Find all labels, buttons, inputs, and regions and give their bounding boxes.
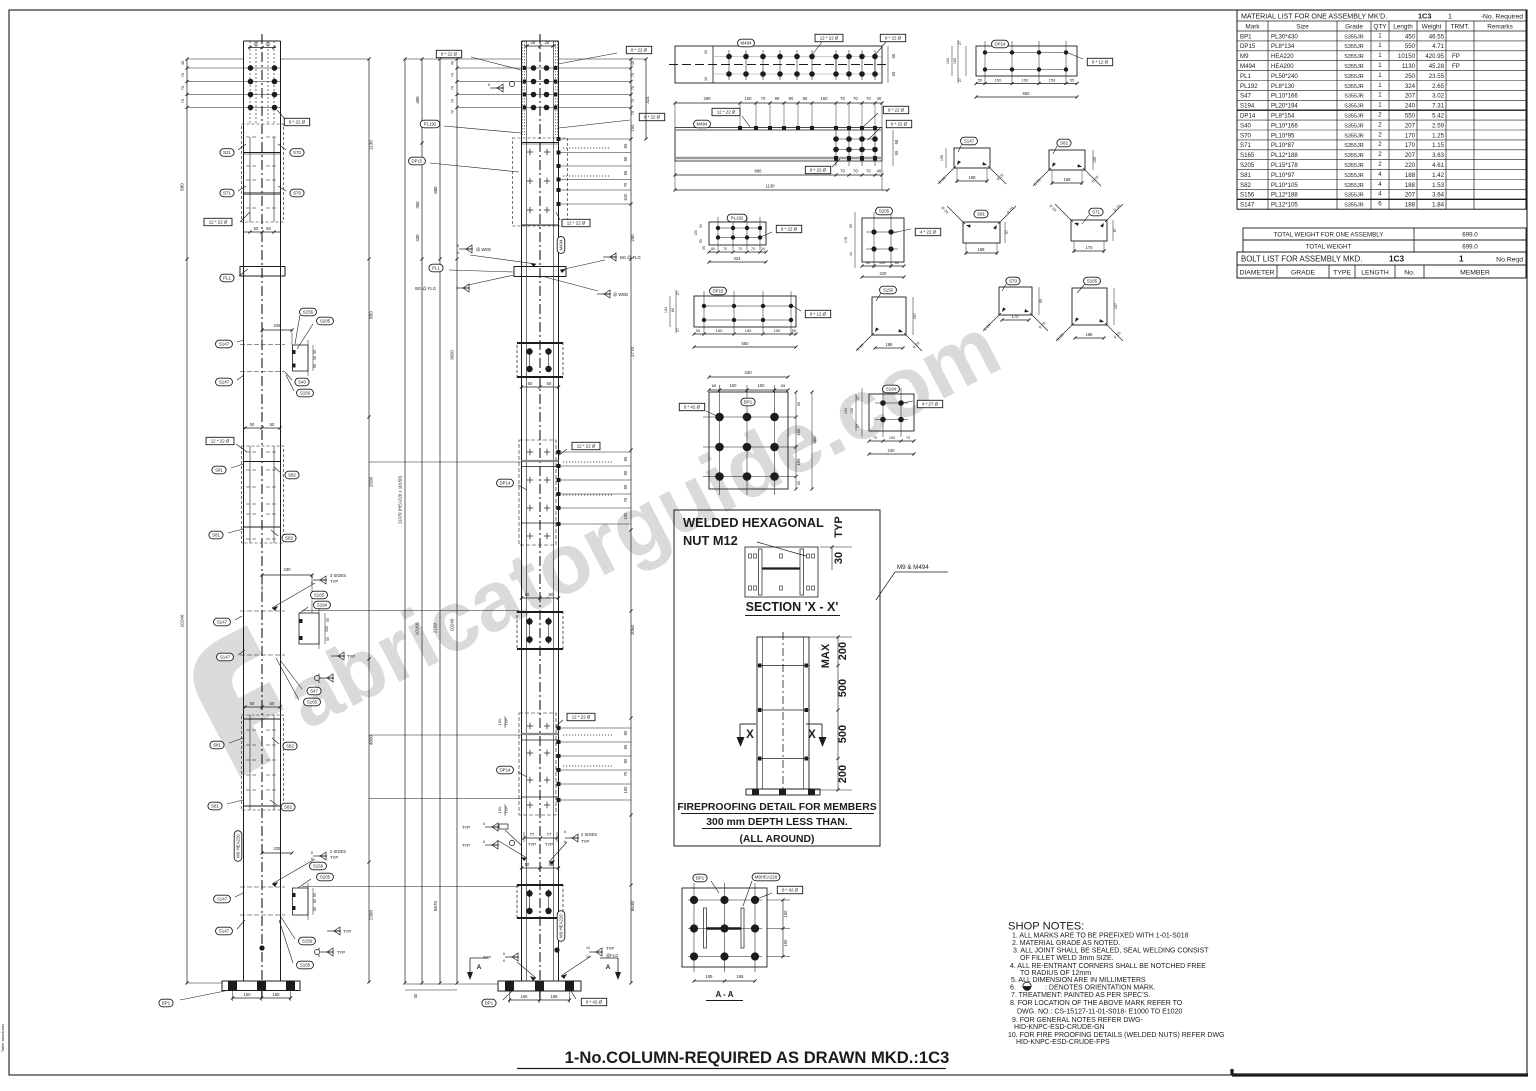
svg-text:6: 6 — [311, 851, 313, 855]
svg-text:1.25: 1.25 — [1432, 132, 1444, 139]
gusset S194 plate mid — [299, 613, 319, 644]
label S71 det — [1089, 208, 1103, 216]
svg-text:47: 47 — [856, 424, 860, 428]
svg-text:27: 27 — [958, 41, 962, 45]
svg-text:6: 6 — [488, 83, 490, 87]
svg-text:880: 880 — [755, 169, 763, 174]
svg-text:@ WEB: @ WEB — [476, 247, 491, 252]
svg-text:90: 90 — [623, 470, 628, 475]
svg-text:165: 165 — [521, 994, 529, 999]
svg-text:1C3: 1C3 — [1389, 255, 1404, 264]
svg-text:BP1: BP1 — [1240, 33, 1252, 40]
column 2 top dim 28|28 — [524, 45, 556, 47]
svg-text:M494: M494 — [697, 122, 709, 127]
svg-text:10240: 10240 — [180, 614, 185, 627]
svg-text:1.42: 1.42 — [1432, 172, 1444, 179]
svg-text:PL10*87: PL10*87 — [1271, 142, 1295, 149]
label S205 l — [317, 873, 334, 881]
svg-text:S147: S147 — [217, 620, 228, 625]
svg-text:55: 55 — [313, 907, 317, 911]
label S81 det — [974, 210, 988, 218]
svg-text:27: 27 — [958, 78, 962, 82]
svg-text:MEMBER: MEMBER — [1460, 270, 1490, 277]
svg-text:8 * 22 Ø: 8 * 22 Ø — [891, 122, 908, 127]
svg-text:8 * 22 Ø: 8 * 22 Ø — [441, 52, 458, 57]
svg-text:-No. Required: -No. Required — [1481, 13, 1524, 20]
svg-text:PL50*240: PL50*240 — [1271, 73, 1298, 80]
svg-text:S205: S205 — [879, 209, 890, 214]
svg-text:68: 68 — [894, 139, 899, 144]
svg-text:70: 70 — [451, 73, 455, 77]
label 12*22 col2 top — [562, 219, 590, 226]
svg-text:S71: S71 — [1092, 210, 1100, 215]
svg-text:150: 150 — [745, 328, 752, 333]
label S70 upper — [290, 149, 304, 157]
svg-text:90: 90 — [849, 224, 853, 228]
svg-text:2 SIDES: 2 SIDES — [581, 832, 597, 837]
label S165 mid — [311, 591, 328, 599]
weld BG@FLG left — [456, 287, 470, 289]
svg-text:Remarks: Remarks — [1487, 24, 1513, 31]
svg-text:10. FOR FIRE PROOFING DETAILS: 10. FOR FIRE PROOFING DETAILS (WELDED NU… — [1008, 1032, 1225, 1039]
label 8*22 elev a — [883, 106, 908, 113]
svg-text:PL1: PL1 — [432, 266, 440, 271]
column 1 top bolts 12*22 — [244, 67, 281, 69]
svg-text:S82: S82 — [285, 536, 293, 541]
right extension lines 90/90/90/70/100 top — [559, 138, 632, 140]
svg-text:M9: M9 — [1240, 53, 1249, 60]
svg-text:200: 200 — [837, 765, 849, 783]
svg-text:70: 70 — [623, 771, 628, 776]
svg-text:9. FOR GENERAL NOTES REFER DWG: 9. FOR GENERAL NOTES REFER DWG- — [1012, 1017, 1143, 1024]
svg-text:90: 90 — [623, 456, 628, 461]
label S70 det — [1006, 277, 1020, 285]
label 4*22 S205 — [915, 228, 940, 235]
svg-text:420.95: 420.95 — [1425, 53, 1444, 60]
label 12*22 col2 mid — [572, 442, 600, 449]
label 8*42 BP1 — [679, 403, 704, 410]
label S205 det — [876, 207, 893, 215]
svg-text:S147: S147 — [964, 139, 975, 144]
svg-text:S165: S165 — [1087, 279, 1098, 284]
svg-text:30: 30 — [833, 552, 845, 564]
label 4*27 S194 — [917, 400, 942, 407]
svg-text:70: 70 — [631, 99, 635, 103]
svg-text:130: 130 — [694, 230, 698, 236]
svg-text:@ WEB: @ WEB — [613, 292, 628, 297]
col2 dim 50|50 above splice2 — [522, 597, 558, 599]
column 2 centerline — [539, 34, 541, 999]
svg-text:S71: S71 — [1240, 142, 1251, 149]
node S205/S156 lower on column 1 — [262, 852, 292, 854]
weld BG@FLG right — [603, 256, 617, 258]
svg-text:55: 55 — [326, 618, 330, 622]
svg-text:S156: S156 — [883, 288, 894, 293]
svg-text:188: 188 — [1064, 177, 1072, 182]
label S194 det — [883, 385, 900, 393]
svg-text:1130: 1130 — [765, 184, 775, 189]
label M494 voval — [557, 237, 565, 254]
svg-text:Weight: Weight — [1422, 24, 1442, 31]
svg-text:BG @ FLG: BG @ FLG — [415, 286, 436, 291]
svg-text:TYP: TYP — [545, 842, 553, 847]
svg-text:S47: S47 — [310, 689, 318, 694]
svg-text:30: 30 — [413, 993, 418, 998]
label S81 l — [210, 741, 224, 749]
svg-text:90: 90 — [789, 96, 794, 101]
svg-text:65: 65 — [796, 401, 801, 406]
weld cluster above base splice — [485, 826, 499, 828]
label S147 f — [216, 927, 233, 935]
label DP14 upper — [497, 479, 514, 487]
svg-text:TYP: TYP — [347, 654, 355, 659]
svg-text:S165: S165 — [300, 963, 311, 968]
svg-text:90: 90 — [313, 356, 317, 360]
svg-text:154: 154 — [946, 58, 950, 64]
svg-text:8 * 22 Ø: 8 * 22 Ø — [885, 36, 902, 41]
svg-text:TYP: TYP — [581, 839, 589, 844]
svg-text:Size: Size — [1296, 24, 1309, 31]
label BP1 col1 — [159, 999, 173, 1007]
svg-text:1.15: 1.15 — [1432, 142, 1444, 149]
svg-text:DIAMETER: DIAMETER — [1239, 270, 1274, 277]
svg-text:188: 188 — [978, 247, 986, 252]
splice plate PL1 col1 — [240, 267, 285, 277]
svg-text:PL1: PL1 — [223, 276, 231, 281]
detail S205 — [862, 218, 904, 262]
label 8*22 top-right col2 — [626, 46, 651, 53]
svg-text:BP1: BP1 — [485, 1001, 494, 1006]
svg-text:PL15*178: PL15*178 — [1271, 162, 1298, 169]
svg-text:PL10*105: PL10*105 — [1271, 182, 1298, 189]
svg-text:M9HEA220: M9HEA220 — [755, 875, 778, 880]
detail M494 side elevation — [675, 102, 882, 104]
svg-text:A: A — [477, 964, 482, 971]
dim 77|77 — [524, 837, 557, 839]
svg-text:70: 70 — [631, 111, 635, 115]
svg-text:DWG. NO.: CS-15127-11-01-S018-: DWG. NO.: CS-15127-11-01-S018- E1000 TO … — [1017, 1009, 1182, 1016]
svg-text:6: 6 — [457, 251, 459, 255]
label 12*22 col2 low — [567, 713, 595, 720]
svg-text:70: 70 — [761, 96, 766, 101]
svg-text:220: 220 — [1405, 162, 1416, 169]
svg-text:DP14: DP14 — [1240, 113, 1256, 120]
svg-text:90: 90 — [775, 96, 780, 101]
svg-text:PL12*188: PL12*188 — [1271, 152, 1298, 159]
svg-text:30: 30 — [704, 77, 708, 81]
label S82 det — [1057, 139, 1071, 147]
column 1 right dimension line 1130/850/2500/4800/2380 — [368, 59, 370, 983]
svg-text:S21: S21 — [223, 150, 231, 155]
svg-text:3 SIDES: 3 SIDES — [330, 573, 346, 578]
label S40 — [295, 378, 309, 386]
label 12*22 elev — [712, 108, 740, 115]
svg-text:MATERIAL LIST FOR ONE ASSEMBLY: MATERIAL LIST FOR ONE ASSEMBLY MK’D. — [1241, 12, 1387, 20]
svg-text:S205: S205 — [320, 319, 331, 324]
M494 plan right dims 65 65 — [887, 46, 889, 83]
svg-text:S156: S156 — [300, 391, 311, 396]
svg-text:S205: S205 — [1240, 162, 1255, 169]
svg-text:70: 70 — [866, 169, 871, 174]
svg-text:8 * 42 Ø: 8 * 42 Ø — [782, 888, 799, 893]
svg-text:S81: S81 — [1240, 172, 1251, 179]
svg-text:220: 220 — [880, 271, 888, 276]
svg-text:S71: S71 — [223, 191, 231, 196]
svg-text:200: 200 — [837, 642, 849, 660]
bolt list header — [1237, 252, 1526, 265]
svg-text:S82: S82 — [1060, 141, 1068, 146]
svg-text:6: 6 — [564, 830, 566, 834]
svg-text:8 * 22 Ø: 8 * 22 Ø — [289, 120, 306, 125]
svg-text:S70: S70 — [293, 191, 301, 196]
svg-text:TYP: TYP — [337, 950, 345, 955]
weld TYP mid — [331, 655, 345, 657]
svg-text:90: 90 — [623, 484, 628, 489]
svg-text:S355JR: S355JR — [1344, 34, 1364, 40]
svg-text:170: 170 — [1405, 132, 1416, 139]
svg-text:60: 60 — [895, 261, 899, 265]
svg-text:188: 188 — [886, 342, 894, 347]
svg-text:OF FILLET WELD 3mm SIZE.: OF FILLET WELD 3mm SIZE. — [1020, 955, 1114, 962]
svg-text:PL192: PL192 — [731, 216, 744, 221]
column M9 elevation (flange view) main body — [521, 41, 523, 981]
detail S81 — [963, 222, 1000, 243]
total weight table — [1243, 228, 1526, 240]
label M494 elev — [694, 120, 711, 128]
svg-text:30: 30 — [704, 50, 708, 54]
svg-text:S194: S194 — [1240, 103, 1255, 110]
svg-text:350: 350 — [415, 201, 420, 209]
svg-text:207: 207 — [1405, 122, 1416, 129]
svg-text:4. ALL RE-ENTRANT CORNERS SHAL: 4. ALL RE-ENTRANT CORNERS SHALL BE NOTCH… — [1010, 963, 1206, 970]
svg-text:2060: 2060 — [630, 624, 635, 635]
svg-text:8 * 22 Ø: 8 * 22 Ø — [644, 115, 661, 120]
label S21 — [220, 149, 234, 157]
column 2 left dim lines — [404, 59, 406, 983]
svg-text:S165: S165 — [314, 593, 325, 598]
svg-text:S81: S81 — [977, 212, 985, 217]
fireproofing detail enclosure box — [674, 510, 880, 846]
svg-text:S147: S147 — [217, 897, 228, 902]
svg-text:7.31: 7.31 — [1432, 103, 1444, 110]
svg-text:87: 87 — [1113, 228, 1117, 232]
svg-text:6: 6 — [311, 575, 313, 579]
svg-text:TYP: TYP — [330, 579, 338, 584]
svg-text:90: 90 — [803, 96, 808, 101]
svg-text:12 * 22 Ø: 12 * 22 Ø — [717, 110, 736, 115]
svg-text:HEA220: HEA220 — [1271, 53, 1294, 60]
label PL192 det — [727, 214, 747, 222]
svg-text:150: 150 — [716, 328, 723, 333]
svg-text:1C3: 1C3 — [1418, 11, 1431, 20]
svg-text:40: 40 — [631, 61, 635, 65]
svg-text:40: 40 — [451, 61, 455, 65]
svg-text:150: 150 — [783, 939, 788, 947]
svg-text:35: 35 — [702, 246, 706, 250]
svg-text:1: 1 — [1459, 255, 1464, 264]
svg-text:S355JR: S355JR — [1344, 84, 1364, 90]
detail S71 — [1071, 220, 1107, 241]
svg-text:30: 30 — [699, 224, 703, 228]
svg-text:170: 170 — [1405, 142, 1416, 149]
svg-text:2500: 2500 — [369, 476, 374, 487]
svg-text:MAX: MAX — [820, 643, 832, 668]
label DP15 det — [710, 287, 727, 295]
column 1 mid stiffener group S81/S82 upper — [244, 427, 281, 429]
svg-text:240: 240 — [1405, 103, 1416, 110]
svg-text:8 * 22 Ø: 8 * 22 Ø — [631, 48, 648, 53]
detail BP1 base plate plan — [709, 392, 788, 489]
svg-text:480: 480 — [415, 96, 420, 104]
svg-text:2.59: 2.59 — [1432, 122, 1444, 129]
label 8*42 col2 — [581, 998, 606, 1005]
svg-text:TO RADIUS OF 12mm: TO RADIUS OF 12mm — [1020, 970, 1091, 977]
svg-text:S355JR: S355JR — [1344, 74, 1364, 80]
svg-text:70: 70 — [866, 96, 871, 101]
svg-text:S355JR: S355JR — [1344, 203, 1364, 209]
label S156 l — [310, 862, 327, 870]
label BP1 det — [741, 398, 755, 406]
svg-text:M9 HEA220: M9 HEA220 — [236, 834, 241, 858]
svg-text:DP14: DP14 — [995, 42, 1007, 47]
label M9HEA220 A-A — [752, 873, 780, 881]
svg-text:150: 150 — [1049, 78, 1056, 83]
svg-text:50: 50 — [270, 701, 275, 706]
svg-text:BOLT LIST FOR ASSEMBLY MKD.: BOLT LIST FOR ASSEMBLY MKD. — [1241, 255, 1362, 264]
svg-text:PL10*97: PL10*97 — [1271, 172, 1295, 179]
svg-text:M9 & M494: M9 & M494 — [897, 564, 929, 571]
weld @WEB col2 — [459, 248, 473, 250]
weld 2 SIDES TYP right — [565, 837, 579, 839]
label 8*22 PL192 — [776, 225, 801, 232]
svg-text:8 * 12 Ø: 8 * 12 Ø — [1092, 60, 1109, 65]
svg-text:8 * 22 Ø: 8 * 22 Ø — [781, 227, 798, 232]
svg-text:70: 70 — [180, 85, 185, 90]
label BP1 col2 — [482, 999, 496, 1007]
svg-text:55: 55 — [699, 239, 703, 243]
svg-text:90: 90 — [623, 170, 628, 175]
svg-text:207: 207 — [1405, 192, 1416, 199]
svg-text:100: 100 — [889, 436, 895, 440]
svg-text:S355JR: S355JR — [1344, 104, 1364, 110]
label 8*22 right2 col2 — [639, 113, 664, 120]
svg-text:2 SIDES: 2 SIDES — [330, 849, 346, 854]
svg-text:M9 HEA220: M9 HEA220 — [559, 914, 564, 938]
svg-text:188: 188 — [1405, 202, 1416, 209]
svg-text:SHOP NOTES:: SHOP NOTES: — [1008, 921, 1084, 933]
column 1 lower stiffener group S81/S82 — [244, 706, 281, 708]
svg-text:50: 50 — [250, 422, 255, 427]
svg-text:100: 100 — [325, 626, 329, 632]
section cut A left — [470, 957, 488, 959]
svg-text:65: 65 — [712, 383, 717, 388]
svg-text:90: 90 — [623, 156, 628, 161]
svg-text:2380: 2380 — [369, 909, 374, 920]
label S82 u2 — [282, 534, 296, 542]
svg-text:12 * 22 Ø: 12 * 22 Ø — [577, 444, 596, 449]
label S194 mid — [314, 601, 331, 609]
title block heavy bottom edge — [1232, 1073, 1528, 1076]
svg-text:6.: 6. — [1010, 985, 1016, 992]
svg-text:50: 50 — [549, 592, 554, 597]
svg-text:100: 100 — [497, 806, 502, 813]
column 2 DP14 lower cluster — [519, 713, 556, 815]
svg-text:150: 150 — [273, 992, 281, 997]
svg-text:SECTION 'X - X': SECTION 'X - X' — [746, 600, 839, 614]
svg-text:100: 100 — [623, 193, 628, 201]
svg-text:55: 55 — [978, 79, 982, 83]
label S147 det — [961, 137, 978, 145]
column 1 dim 50|50 under stiffeners — [244, 231, 280, 233]
fireproofing base plate — [746, 789, 820, 795]
svg-text:Grade: Grade — [1345, 24, 1363, 31]
svg-text:2150: 2150 — [433, 622, 438, 633]
svg-text:27: 27 — [676, 291, 680, 295]
svg-text:PL30*430: PL30*430 — [1271, 33, 1298, 40]
svg-text:S156: S156 — [1240, 192, 1255, 199]
svg-text:55: 55 — [894, 150, 899, 155]
column 1 upper stiffener group S21/S70/S71 — [242, 124, 284, 222]
svg-text:150: 150 — [1022, 78, 1029, 83]
svg-text:4.61: 4.61 — [1432, 162, 1444, 169]
svg-text:PL1: PL1 — [1240, 73, 1251, 80]
svg-text:188: 188 — [1405, 182, 1416, 189]
svg-text:8 * 42 Ø: 8 * 42 Ø — [586, 1000, 603, 1005]
svg-text:PL20*194: PL20*194 — [1271, 103, 1298, 110]
svg-text:S355JR: S355JR — [1344, 183, 1364, 189]
svg-text:70: 70 — [451, 99, 455, 103]
svg-text:65: 65 — [891, 71, 896, 76]
detail S70 — [999, 287, 1032, 315]
svg-text:4800: 4800 — [369, 734, 374, 745]
svg-text:BP1: BP1 — [696, 876, 705, 881]
label M9 HEA220 col1 — [234, 831, 242, 862]
svg-text:TOTAL WEIGHT FOR ONE ASSEMBLY: TOTAL WEIGHT FOR ONE ASSEMBLY — [1274, 232, 1384, 239]
svg-text:S81: S81 — [213, 743, 221, 748]
column 2 splice box 2 with bolts — [517, 611, 563, 613]
svg-text:8 * 22 Ø: 8 * 22 Ø — [810, 168, 827, 173]
svg-text:50: 50 — [266, 226, 271, 231]
svg-text:PL8*154: PL8*154 — [1271, 113, 1295, 120]
svg-text:5870: 5870 — [433, 900, 438, 911]
label BP1 A-A — [693, 874, 707, 882]
svg-text:1130: 1130 — [1402, 63, 1416, 70]
column 2 upper DP15 splice zone — [513, 138, 568, 226]
svg-text:100: 100 — [850, 408, 854, 414]
svg-text:150: 150 — [244, 992, 252, 997]
label S156 b — [297, 389, 314, 397]
svg-text:6530: 6530 — [630, 900, 635, 911]
svg-text:324: 324 — [1405, 83, 1416, 90]
svg-text:80: 80 — [711, 247, 715, 251]
svg-text:100: 100 — [623, 786, 628, 794]
svg-text:S147: S147 — [219, 380, 230, 385]
label S165 l — [297, 961, 314, 969]
svg-text:M494: M494 — [1240, 63, 1256, 70]
col2 base dims 165|165 — [510, 999, 570, 1001]
svg-text:Table structures: Table structures — [0, 1024, 5, 1052]
svg-text:699.0: 699.0 — [1462, 244, 1478, 251]
svg-text:290: 290 — [704, 96, 712, 101]
svg-text:12 * 22 Ø: 12 * 22 Ø — [820, 36, 839, 41]
column 1 centerline — [261, 34, 263, 999]
svg-text:6: 6 — [318, 954, 320, 958]
svg-text:S355JR: S355JR — [1344, 173, 1364, 179]
svg-text:BG @ FLG: BG @ FLG — [620, 255, 641, 260]
svg-text:3.02: 3.02 — [1432, 93, 1444, 100]
svg-text:A: A — [606, 964, 611, 971]
svg-text:S147: S147 — [219, 929, 230, 934]
